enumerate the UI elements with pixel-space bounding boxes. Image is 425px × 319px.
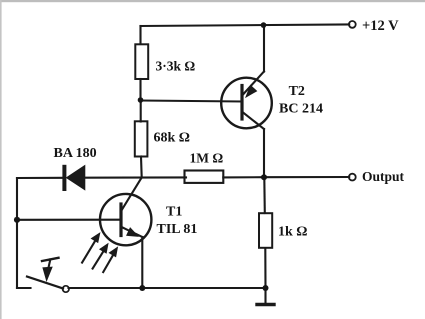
svg-text:T2: T2 xyxy=(289,84,305,99)
terminal Output xyxy=(349,174,356,181)
wire T2 emitter to rail xyxy=(263,25,265,71)
svg-text:T1: T1 xyxy=(166,205,182,220)
wire 68k top lead xyxy=(140,100,142,122)
switch plunger xyxy=(42,258,59,281)
svg-text:3·3k Ω: 3·3k Ω xyxy=(156,59,196,74)
ground xyxy=(257,288,274,305)
light arrow 2 xyxy=(93,244,108,269)
resistor 3.3k xyxy=(135,44,148,79)
wire diode anode side xyxy=(17,177,63,179)
svg-text:68k Ω: 68k Ω xyxy=(154,131,191,146)
wire T1 base xyxy=(17,219,121,221)
wire bottom-left corner stub xyxy=(17,287,31,289)
resistor 1M xyxy=(185,171,224,183)
svg-text:TIL 81: TIL 81 xyxy=(157,222,198,237)
light arrow 3 xyxy=(103,247,117,272)
node output junction xyxy=(261,174,267,180)
wire 3.3k bottom lead xyxy=(139,79,141,100)
svg-text:Output: Output xyxy=(362,169,405,184)
svg-text:1M Ω: 1M Ω xyxy=(190,151,224,166)
wire 68k bottom lead xyxy=(140,157,143,178)
transistor T1 xyxy=(100,178,151,246)
svg-text:+12 V: +12 V xyxy=(362,18,399,34)
switch contact xyxy=(63,286,69,292)
svg-text:BC 214: BC 214 xyxy=(279,102,323,117)
wire 1M to output node xyxy=(223,176,264,178)
wire +12V top rail xyxy=(141,24,350,26)
node 3.3k / 68k / T2 base xyxy=(138,97,144,103)
wire bottom rail xyxy=(69,287,266,289)
svg-text:BA 180: BA 180 xyxy=(54,146,97,161)
wire left rail vertical xyxy=(16,178,18,288)
wire T1 emitter to bottom rail xyxy=(141,237,143,288)
wire 3.3k top lead xyxy=(139,26,141,44)
switch lever xyxy=(27,277,63,289)
node T1 emitter / bottom rail xyxy=(139,285,145,291)
diode BA 180 xyxy=(64,166,84,190)
node left rail / T1 base xyxy=(14,217,20,223)
wire 1k top lead xyxy=(263,178,266,214)
transistor T2 xyxy=(221,72,272,130)
wire T2 base xyxy=(141,101,243,102)
resistor 68k xyxy=(135,121,148,156)
svg-text:1k Ω: 1k Ω xyxy=(278,225,308,240)
node 1k / ground / bottom rail xyxy=(263,285,269,291)
scan border left xyxy=(0,0,2,319)
scan border top xyxy=(0,0,425,2)
light arrow 1 xyxy=(82,233,100,262)
wire diode to 1M xyxy=(85,176,186,178)
terminal +12V xyxy=(349,21,356,28)
wire output xyxy=(264,176,349,178)
node top rail / T2 emitter xyxy=(261,22,267,28)
wire T2 collector to output node xyxy=(263,129,265,178)
resistor 1k xyxy=(259,213,272,248)
wire 1k bottom lead xyxy=(264,248,266,288)
